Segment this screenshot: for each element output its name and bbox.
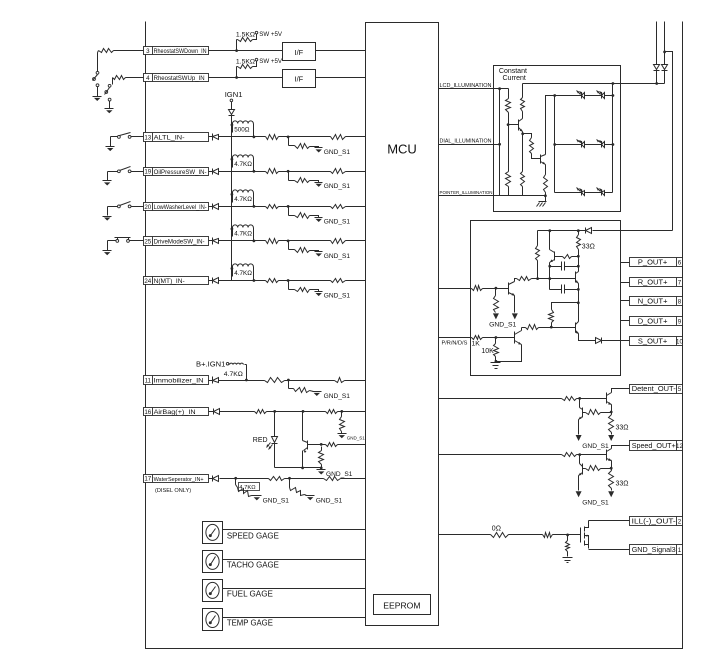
transistor 2 bbox=[579, 455, 583, 476]
svg-text:Immobilizer_IN: Immobilizer_IN bbox=[154, 378, 204, 385]
wire rail bbox=[499, 89, 501, 196]
connector pin 19 bbox=[144, 168, 209, 176]
label GND_S1 bbox=[582, 499, 609, 506]
svg-text:GND_S1: GND_S1 bbox=[324, 253, 351, 260]
svg-text:R_OUT+: R_OUT+ bbox=[638, 278, 668, 287]
wire bbox=[621, 282, 630, 284]
wire bbox=[578, 257, 580, 272]
wire detent drive bbox=[439, 398, 562, 400]
connector pin 16 bbox=[144, 408, 209, 416]
svg-text:4.7KΩ: 4.7KΩ bbox=[234, 231, 252, 238]
resistor R25b bbox=[266, 239, 279, 244]
connector ILL(-)_OUT- bbox=[630, 517, 683, 526]
wire bbox=[126, 77, 144, 79]
capacitor C2 bbox=[550, 285, 580, 294]
resistor R25a pullup bbox=[231, 225, 256, 242]
transistor bbox=[607, 393, 612, 405]
svg-text:POINTER_ILLUMINATION: POINTER_ILLUMINATION bbox=[440, 190, 493, 195]
resistor R51 33ohm bbox=[577, 231, 595, 258]
wire bbox=[112, 78, 114, 85]
wire bbox=[279, 279, 331, 282]
transistor Q9 bbox=[575, 322, 578, 334]
ground sym bbox=[93, 97, 102, 102]
ground bbox=[493, 313, 499, 319]
wire drive1 bbox=[439, 288, 471, 290]
wire top bbox=[538, 229, 586, 232]
ground GND_S1 bbox=[315, 252, 351, 260]
ground GND_S1 bbox=[306, 496, 343, 505]
svg-text:20: 20 bbox=[144, 204, 151, 211]
svg-text:GND_S1: GND_S1 bbox=[324, 292, 351, 299]
svg-text:GND_S1: GND_S1 bbox=[263, 498, 290, 505]
wire bbox=[621, 300, 630, 302]
ground GND_S1 bbox=[315, 292, 351, 300]
wire IGN1 rail bbox=[231, 115, 233, 281]
resistor R19b bbox=[266, 169, 279, 174]
transistor M1 mosfet bbox=[581, 521, 589, 549]
svg-text:LowWasherLevel_IN-: LowWasherLevel_IN- bbox=[154, 204, 207, 211]
svg-text:FUEL GAGE: FUEL GAGE bbox=[227, 590, 273, 599]
wire LED rail right bbox=[612, 84, 615, 193]
wire POINTER_ILLUMINATION bbox=[439, 190, 500, 195]
IC U4 EEPROM bbox=[374, 595, 431, 615]
wire LED rail left bbox=[553, 94, 556, 192]
ground bbox=[608, 491, 614, 497]
LED D-b bbox=[597, 91, 605, 99]
constant current box bbox=[494, 66, 621, 212]
diode D41 bbox=[662, 65, 668, 71]
connector Speed_OUT+ bbox=[630, 441, 684, 451]
svg-text:P/R/N/D/S: P/R/N/D/S bbox=[442, 341, 468, 347]
resistor R19d shunt bbox=[289, 172, 319, 183]
ground bbox=[576, 491, 582, 497]
resistor R20a pullup bbox=[231, 190, 256, 208]
resistor R34 bbox=[523, 134, 541, 159]
connector P_OUT+ bbox=[630, 258, 683, 267]
wire bbox=[589, 520, 630, 522]
I/F box U2 bbox=[283, 43, 316, 61]
svg-text:19: 19 bbox=[144, 169, 151, 176]
diode D51 bbox=[596, 338, 602, 344]
wire bbox=[219, 171, 266, 173]
svg-text:4: 4 bbox=[146, 75, 150, 82]
resistor 0ohm bbox=[491, 533, 509, 538]
svg-text:Constant: Constant bbox=[499, 68, 527, 75]
wire bbox=[316, 77, 366, 79]
wire bbox=[509, 534, 543, 536]
wire supply A bbox=[656, 22, 658, 65]
switch bbox=[118, 133, 132, 139]
transistor 2 bbox=[579, 399, 583, 420]
svg-text:DIAL_ILLUMINATION: DIAL_ILLUMINATION bbox=[440, 139, 492, 145]
wire bbox=[555, 192, 613, 194]
resistor bbox=[562, 397, 577, 401]
svg-text:33Ω: 33Ω bbox=[616, 481, 629, 488]
svg-text:25: 25 bbox=[144, 238, 151, 245]
wire bbox=[219, 280, 266, 282]
diode D11 bbox=[209, 377, 219, 384]
svg-text:B+.IGN1: B+.IGN1 bbox=[196, 359, 225, 368]
svg-text:33Ω: 33Ω bbox=[582, 244, 595, 251]
ground GND_S1 bbox=[253, 496, 290, 505]
ground GND_S1 bbox=[315, 183, 351, 191]
resistor R11d shunt bbox=[289, 381, 314, 393]
LED D-a bbox=[577, 91, 585, 99]
wire bbox=[555, 144, 613, 146]
node bbox=[235, 49, 238, 52]
I/F box U3 bbox=[283, 70, 316, 88]
wire bbox=[602, 340, 630, 342]
B+.IGN1 terminal bbox=[196, 359, 229, 368]
svg-text:Current: Current bbox=[503, 75, 526, 82]
wire bbox=[220, 477, 269, 480]
wire bbox=[515, 279, 517, 282]
svg-text:I/F: I/F bbox=[295, 75, 304, 84]
svg-text:33Ω: 33Ω bbox=[616, 424, 629, 431]
IGN1 terminal bbox=[225, 90, 243, 102]
svg-text:MCU: MCU bbox=[387, 142, 417, 157]
resistor R20b bbox=[266, 205, 279, 209]
resistor base bbox=[583, 410, 613, 415]
connector pin 17 bbox=[144, 475, 209, 495]
wire bbox=[553, 534, 581, 537]
svg-text:I/F: I/F bbox=[295, 48, 304, 57]
connector S_OUT+ bbox=[630, 337, 684, 346]
wire bbox=[108, 241, 144, 251]
transistor bbox=[607, 449, 612, 462]
label bbox=[234, 127, 250, 134]
ground bbox=[537, 196, 547, 207]
wire bbox=[346, 136, 366, 138]
svg-text:9: 9 bbox=[678, 319, 682, 326]
ground wire bbox=[109, 101, 111, 109]
connector D_OUT+ bbox=[630, 316, 683, 325]
resistor R56 1K bbox=[471, 336, 498, 348]
wire bbox=[613, 83, 665, 85]
LED D-a bbox=[577, 188, 585, 196]
wire bbox=[219, 240, 266, 242]
resistor R55 bbox=[494, 289, 499, 313]
resistor R20d shunt bbox=[289, 207, 319, 219]
wire bbox=[219, 380, 265, 382]
wire bbox=[577, 284, 580, 322]
node bbox=[235, 76, 238, 79]
connector pin 4 bbox=[144, 74, 209, 83]
ground sym bbox=[103, 181, 112, 186]
connector pin 20 bbox=[144, 203, 209, 211]
ground GND_S1 bbox=[315, 148, 351, 156]
svg-text:D_OUT+: D_OUT+ bbox=[638, 316, 668, 325]
svg-text:RheostatSWDown_IN: RheostatSWDown_IN bbox=[154, 49, 207, 55]
resistor 1.5K pullup bbox=[237, 34, 257, 51]
svg-text:GND_S1: GND_S1 bbox=[347, 435, 366, 440]
wire bbox=[514, 296, 516, 313]
gauge SPEED GAGE bbox=[203, 522, 223, 544]
wire bbox=[267, 410, 326, 413]
resistor R31 bbox=[506, 125, 511, 196]
wire bbox=[548, 263, 551, 290]
wire bbox=[108, 207, 144, 216]
diode D50 bbox=[586, 228, 592, 234]
svg-text:P_OUT+: P_OUT+ bbox=[638, 258, 668, 267]
switch push-button bbox=[115, 238, 131, 243]
wire bbox=[621, 262, 630, 264]
wire bbox=[275, 467, 322, 469]
svg-text:GND_S1: GND_S1 bbox=[324, 393, 351, 400]
wire bbox=[209, 77, 283, 79]
svg-text:1: 1 bbox=[678, 547, 682, 554]
wire bbox=[223, 617, 366, 619]
resistor R13b bbox=[266, 135, 279, 140]
svg-text:3: 3 bbox=[146, 48, 150, 55]
svg-text:SW +5V: SW +5V bbox=[259, 58, 283, 65]
resistor R24d shunt bbox=[289, 281, 319, 293]
wire bbox=[346, 240, 366, 242]
ground sym bbox=[106, 147, 115, 152]
wire ILL drive bbox=[439, 525, 501, 534]
resistor base bbox=[583, 466, 613, 471]
connector N_OUT+ bbox=[630, 296, 683, 305]
resistor R50 bbox=[536, 231, 540, 281]
label GND_S1 bbox=[489, 322, 516, 329]
wire rail bottom bbox=[500, 195, 546, 197]
gauge TACHO GAGE bbox=[203, 551, 223, 573]
svg-text:12: 12 bbox=[676, 443, 683, 450]
switch bbox=[118, 202, 132, 208]
wire bbox=[223, 529, 366, 531]
wire bbox=[546, 96, 555, 155]
wire bbox=[223, 588, 366, 590]
resistor R13a pullup bbox=[231, 121, 256, 138]
svg-text:6: 6 bbox=[678, 260, 682, 267]
svg-text:(DISEL ONLY): (DISEL ONLY) bbox=[155, 488, 191, 494]
resistor R59 bbox=[549, 303, 579, 328]
resistor R16c bbox=[340, 412, 345, 434]
svg-text:SPEED GAGE: SPEED GAGE bbox=[227, 532, 279, 541]
wire bbox=[612, 446, 630, 449]
wire bbox=[589, 549, 630, 551]
LED D-b bbox=[597, 188, 605, 196]
svg-text:TEMP GAGE: TEMP GAGE bbox=[227, 619, 273, 628]
wire bbox=[316, 50, 366, 52]
svg-text:RheostatSWUp_IN: RheostatSWUp_IN bbox=[154, 76, 205, 82]
wire bbox=[496, 345, 522, 362]
wire bbox=[219, 206, 266, 208]
wire bbox=[579, 334, 596, 341]
svg-text:11: 11 bbox=[145, 377, 152, 384]
wire bbox=[219, 136, 266, 138]
resistor bbox=[562, 453, 577, 457]
svg-text:4.7KΩ: 4.7KΩ bbox=[234, 270, 252, 277]
label bbox=[227, 619, 273, 628]
wire bbox=[341, 478, 366, 480]
label bbox=[234, 270, 252, 277]
transistor Q3 bbox=[509, 119, 523, 132]
gauge FUEL GAGE bbox=[203, 580, 223, 602]
wire drive2 P/R/N/D/S bbox=[439, 338, 471, 347]
connector pin 24 bbox=[144, 277, 209, 286]
resistor R32 bbox=[521, 84, 525, 119]
svg-text:DriveModeSW_IN-: DriveModeSW_IN- bbox=[154, 238, 205, 245]
transistor Q7 bbox=[509, 282, 515, 296]
resistor R33 bbox=[521, 134, 525, 196]
svg-text:EEPROM: EEPROM bbox=[383, 600, 420, 610]
wire bbox=[114, 50, 144, 52]
svg-text:500Ω: 500Ω bbox=[234, 127, 250, 134]
label bbox=[234, 196, 252, 203]
transistor Q4 bbox=[541, 155, 546, 165]
svg-text:0Ω: 0Ω bbox=[492, 525, 501, 532]
ground bbox=[563, 558, 573, 563]
wire bbox=[274, 444, 276, 468]
resistor bbox=[99, 49, 114, 53]
resistor R16b bbox=[326, 410, 338, 414]
svg-text:8: 8 bbox=[678, 298, 682, 305]
connector pin 25 bbox=[144, 237, 209, 246]
ground GND_S1 bbox=[317, 470, 353, 479]
svg-text:4.7KΩ: 4.7KΩ bbox=[234, 161, 252, 168]
label bbox=[227, 590, 273, 599]
resistor R13d shunt bbox=[289, 137, 319, 149]
diode D24 bbox=[209, 278, 219, 284]
wire bbox=[274, 412, 276, 437]
wire bbox=[285, 379, 335, 382]
ground sym bbox=[105, 109, 114, 114]
resistor 33 bbox=[609, 461, 629, 491]
LED D-a bbox=[577, 140, 585, 148]
gear driver box bbox=[471, 221, 621, 376]
transistor Q8 bbox=[515, 331, 522, 345]
wire bbox=[223, 559, 366, 561]
svg-text:GND_S1: GND_S1 bbox=[324, 149, 351, 156]
svg-text:GND_S1: GND_S1 bbox=[324, 183, 351, 190]
ground bbox=[491, 362, 501, 369]
wire bbox=[338, 410, 366, 413]
transistor Q5 bbox=[550, 250, 555, 263]
switch SW1 bbox=[93, 71, 99, 86]
node bbox=[320, 443, 323, 446]
svg-text:4.7KΩ: 4.7KΩ bbox=[224, 371, 243, 378]
resistor R58 bbox=[526, 325, 576, 330]
ground GND_S1 bbox=[315, 218, 351, 226]
wire bbox=[111, 137, 144, 147]
wire bbox=[593, 230, 673, 232]
resistor R17d bbox=[290, 479, 307, 496]
ground bbox=[512, 313, 518, 319]
diode D25 bbox=[209, 238, 219, 245]
svg-text:7: 7 bbox=[678, 280, 682, 287]
wire bbox=[279, 136, 331, 139]
wire bbox=[521, 132, 524, 136]
wire bbox=[279, 205, 331, 208]
svg-text:IGN1: IGN1 bbox=[225, 90, 243, 99]
resistor R54 bbox=[517, 277, 576, 281]
wire LCD_ILLUMINATION bbox=[439, 83, 509, 90]
resistor 1.5K pullup bbox=[237, 61, 257, 78]
resistor R17b bbox=[269, 477, 285, 481]
label bbox=[227, 561, 279, 570]
wire bbox=[621, 320, 630, 322]
wire top bbox=[523, 82, 615, 85]
svg-text:AirBag(+)_IN: AirBag(+)_IN bbox=[154, 409, 196, 416]
resistor bbox=[113, 76, 126, 80]
resistor R17a 4.7K bbox=[236, 479, 260, 497]
svg-text:10K: 10K bbox=[481, 348, 494, 355]
svg-text:TACHO GAGE: TACHO GAGE bbox=[227, 561, 279, 570]
wire bbox=[279, 170, 331, 173]
resistor shunt bbox=[566, 535, 570, 557]
resistor R11a 4.7K bbox=[224, 363, 248, 381]
svg-text:N(MT)_IN-: N(MT)_IN- bbox=[154, 278, 185, 285]
SW +5V terminal bbox=[236, 31, 283, 38]
svg-text:GND_S1: GND_S1 bbox=[316, 498, 343, 505]
ground GND_S1 bbox=[338, 434, 366, 441]
svg-text:1.5KΩ: 1.5KΩ bbox=[236, 58, 255, 65]
ground sym bbox=[103, 251, 112, 256]
LED RED bbox=[253, 437, 278, 450]
resistor R16e bbox=[319, 447, 324, 470]
svg-text:24: 24 bbox=[144, 278, 151, 285]
wire bbox=[577, 397, 607, 400]
connector pin 3 bbox=[144, 47, 209, 56]
label bbox=[234, 231, 252, 238]
resistor R30 bbox=[506, 89, 511, 127]
wire bbox=[655, 71, 658, 85]
wire drive3 bbox=[522, 327, 526, 329]
wire bbox=[521, 328, 523, 331]
switch bbox=[118, 167, 132, 173]
wire supply C bbox=[665, 52, 673, 231]
svg-text:4.7KΩ: 4.7KΩ bbox=[234, 196, 252, 203]
label GND_S1 bbox=[582, 443, 609, 450]
svg-text:S_OUT+: S_OUT+ bbox=[638, 337, 668, 346]
svg-text:2: 2 bbox=[678, 519, 682, 526]
transistor Q6 bbox=[575, 272, 578, 284]
wire bbox=[98, 51, 99, 72]
resistor R24c bbox=[331, 279, 346, 283]
transistor Q2 bbox=[303, 441, 322, 454]
svg-text:5: 5 bbox=[678, 386, 682, 393]
diode D17 bbox=[209, 476, 219, 482]
capacitor C1 bbox=[550, 262, 580, 271]
resistor bbox=[543, 533, 553, 538]
diode D20 bbox=[209, 204, 219, 210]
connector GND_Signal3 bbox=[630, 545, 683, 555]
resistor R35 bbox=[544, 165, 548, 198]
wire bbox=[108, 172, 144, 181]
wire DIAL_ILLUMINATION bbox=[439, 139, 502, 146]
svg-text:17: 17 bbox=[144, 476, 151, 483]
resistor R11c bbox=[335, 378, 345, 383]
label bbox=[227, 532, 279, 541]
resistor R11b bbox=[265, 378, 285, 383]
wire bbox=[612, 389, 630, 393]
diode D16 bbox=[209, 409, 220, 415]
diode D1 bbox=[229, 102, 235, 116]
gauge TEMP GAGE bbox=[203, 609, 223, 631]
SW +5V terminal bbox=[236, 58, 283, 65]
svg-text:GND_Signal3: GND_Signal3 bbox=[632, 545, 676, 554]
resistor R19c bbox=[331, 169, 346, 174]
svg-text:GND_S1: GND_S1 bbox=[582, 499, 609, 506]
wire bbox=[555, 95, 613, 97]
wire bbox=[301, 451, 304, 470]
wire bbox=[209, 50, 283, 52]
svg-text:ALTL_IN-: ALTL_IN- bbox=[154, 134, 185, 141]
svg-text:Speed_OUT+: Speed_OUT+ bbox=[632, 441, 677, 450]
connector pin 13 bbox=[144, 133, 209, 142]
connector pin 11 bbox=[144, 376, 209, 385]
